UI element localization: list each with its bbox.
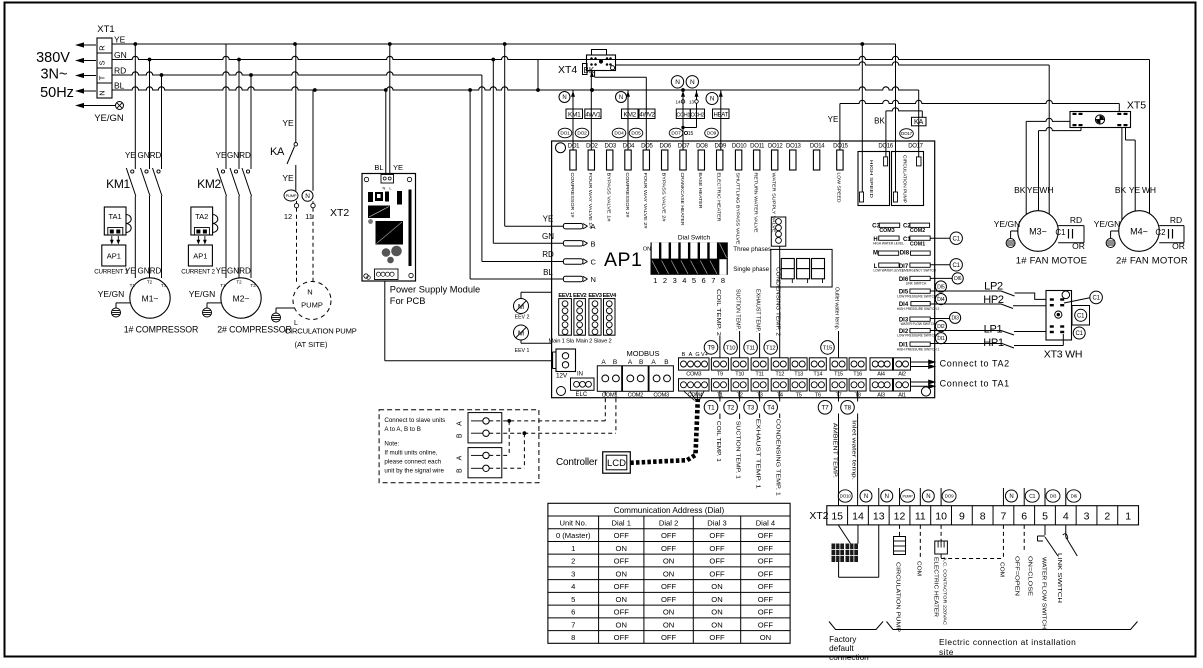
svg-text:N: N: [1009, 494, 1013, 500]
svg-text:B: B: [591, 239, 596, 248]
svg-text:N: N: [562, 95, 566, 101]
svg-text:AI4: AI4: [877, 372, 885, 378]
svg-text:2# FAN MOTOR: 2# FAN MOTOR: [1116, 256, 1188, 267]
svg-text:DO10: DO10: [840, 494, 852, 499]
expansion valve motor EEV2: [514, 299, 529, 314]
svg-text:COM3: COM3: [879, 228, 894, 234]
fan motor M4: [1119, 211, 1160, 252]
svg-text:please connect each: please connect each: [384, 459, 441, 466]
svg-text:YE: YE: [828, 115, 839, 124]
svg-text:Connect to TA1: Connect to TA1: [940, 379, 1010, 389]
svg-text:N: N: [926, 494, 930, 500]
svg-text:YE/GN: YE/GN: [189, 289, 215, 299]
svg-text:Single phase: Single phase: [733, 266, 769, 273]
svg-text:T2: T2: [236, 280, 242, 285]
svg-text:RD: RD: [114, 66, 126, 76]
wire YE bus to DO16: [861, 44, 863, 192]
terminal box T6: [809, 379, 826, 391]
svg-text:4: 4: [571, 582, 575, 591]
svg-text:2: 2: [1104, 511, 1110, 523]
svg-text:ON: ON: [711, 582, 722, 591]
svg-text:LOW PRESSURE SWITCH 2: LOW PRESSURE SWITCH 2: [897, 294, 939, 298]
svg-text:EEV2: EEV2: [573, 293, 586, 299]
svg-text:OFF: OFF: [709, 569, 725, 578]
svg-text:YE: YE: [282, 118, 294, 128]
dashed signal wires A to A B to B: [489, 420, 605, 422]
svg-text:ON: ON: [663, 569, 674, 578]
svg-text:OFF: OFF: [758, 608, 774, 617]
svg-text:GN: GN: [542, 232, 554, 241]
wire M3 BK to XT5: [1026, 118, 1070, 121]
svg-text:DO11: DO11: [750, 144, 765, 150]
svg-text:T11: T11: [755, 372, 764, 378]
svg-text:12: 12: [284, 212, 292, 221]
terminal box AI4: [870, 358, 893, 370]
terminal box T11: [751, 358, 768, 370]
svg-text:DI6: DI6: [1071, 494, 1078, 499]
svg-text:11: 11: [915, 511, 926, 523]
svg-text:ON: ON: [616, 620, 627, 629]
svg-text:OFF: OFF: [614, 531, 630, 540]
svg-text:BK: BK: [1014, 185, 1026, 195]
bus wire BL neutral: [112, 87, 919, 90]
svg-text:BK: BK: [874, 117, 885, 126]
svg-text:OFF: OFF: [758, 557, 774, 566]
svg-text:OFF: OFF: [661, 582, 677, 591]
svg-text:HIGH WATER LEVEL: HIGH WATER LEVEL: [873, 242, 904, 246]
power supply module PCB: [362, 174, 416, 282]
svg-text:OFF: OFF: [758, 531, 774, 540]
svg-text:T7: T7: [821, 405, 829, 412]
svg-text:COM3: COM3: [686, 372, 701, 378]
svg-text:A: A: [628, 359, 633, 366]
XT2 terminal name ovals: [838, 490, 852, 502]
svg-text:site: site: [939, 647, 954, 657]
bus wire GN phase S: [112, 56, 1150, 59]
svg-text:YE: YE: [216, 151, 227, 160]
svg-text:N: N: [305, 193, 310, 200]
terminal box T16: [849, 358, 866, 370]
svg-text:B: B: [457, 433, 464, 438]
svg-text:M2~: M2~: [233, 294, 250, 304]
coil box 4WV1 above DO2: [590, 71, 592, 151]
svg-text:AP1: AP1: [107, 252, 121, 261]
svg-text:N: N: [885, 494, 889, 500]
dashed wires to circulation pump: [296, 208, 298, 284]
svg-text:Electric connection at install: Electric connection at installation: [939, 637, 1076, 647]
wire drops for KM1: [134, 44, 136, 169]
svg-text:1: 1: [571, 544, 575, 553]
svg-text:ELECTRIC HEATER: ELECTRIC HEATER: [717, 173, 722, 222]
svg-text:ON=CLOSE: ON=CLOSE: [1026, 556, 1032, 597]
svg-text:15: 15: [688, 131, 694, 137]
svg-text:XT3 WH: XT3 WH: [1044, 349, 1082, 361]
svg-text:DO17: DO17: [901, 131, 913, 136]
svg-text:Dial 2: Dial 2: [659, 519, 678, 528]
wire M4 WH to GN bus: [1149, 60, 1151, 214]
svg-text:RETURN WATER VALVE: RETURN WATER VALVE: [754, 173, 759, 233]
svg-text:N: N: [619, 95, 623, 101]
svg-text:RD: RD: [542, 250, 554, 259]
svg-text:DO14: DO14: [810, 144, 825, 150]
svg-text:HIGH PRESSURE SWITCH 2: HIGH PRESSURE SWITCH 2: [897, 307, 940, 311]
sensor wire T11 exhaust temp: [759, 333, 761, 358]
capacitor wire to C1: [1064, 298, 1090, 303]
7-segment display: [771, 249, 832, 287]
svg-text:EMERGENCY SWITCH: EMERGENCY SWITCH: [902, 268, 937, 272]
heater box HEAT above DO9: [720, 90, 722, 150]
svg-text:C1: C1: [953, 236, 961, 242]
dashed signal wires from COM1: [604, 391, 606, 421]
svg-text:ON: ON: [663, 620, 674, 629]
svg-text:ON: ON: [663, 608, 674, 617]
svg-text:B: B: [457, 468, 464, 473]
svg-text:TA2: TA2: [195, 212, 208, 221]
svg-text:S: S: [98, 60, 107, 65]
circulation pump circle: [293, 282, 331, 320]
svg-text:LCD: LCD: [607, 458, 626, 469]
svg-text:XT2: XT2: [330, 207, 349, 219]
wire M3 YE to XT5: [1080, 128, 1082, 131]
svg-text:A: A: [601, 359, 606, 366]
svg-text:ON: ON: [711, 595, 722, 604]
svg-text:KM1: KM1: [106, 177, 130, 191]
svg-text:AI3: AI3: [877, 393, 885, 399]
svg-text:EEV4: EEV4: [603, 293, 617, 299]
svg-text:ON: ON: [760, 633, 771, 642]
svg-text:DO5: DO5: [631, 131, 641, 137]
svg-text:YE: YE: [216, 267, 227, 276]
svg-text:BASE HEATER: BASE HEATER: [698, 173, 703, 209]
motor M2: [221, 278, 261, 318]
svg-text:YE: YE: [1129, 185, 1141, 195]
svg-text:DO4: DO4: [614, 131, 624, 137]
wire YE to terminal A: [504, 44, 506, 226]
ground of circulation pump: [272, 313, 281, 322]
svg-text:DO13: DO13: [786, 144, 801, 150]
svg-text:WATER FLOW SWITCH: WATER FLOW SWITCH: [1040, 557, 1046, 629]
svg-text:CIRCULATION PUMP: CIRCULATION PUMP: [285, 326, 357, 335]
svg-text:PUMP: PUMP: [301, 301, 323, 310]
svg-text:COM: COM: [915, 561, 921, 576]
svg-text:CONDENSING TEMP. 2: CONDENSING TEMP. 2: [774, 267, 780, 336]
svg-text:DO7: DO7: [678, 144, 690, 150]
svg-text:Controller: Controller: [556, 457, 598, 468]
svg-text:DO8: DO8: [696, 144, 708, 150]
svg-text:M: M: [873, 251, 878, 257]
svg-text:XT5: XT5: [1127, 100, 1146, 112]
sensor wire T2 suction temp 1: [739, 391, 741, 402]
svg-text:9: 9: [959, 511, 965, 523]
svg-text:Inlet water temp.: Inlet water temp.: [851, 420, 857, 480]
svg-text:AP1: AP1: [604, 249, 642, 271]
svg-text:BYPASS VALVE 2#: BYPASS VALVE 2#: [662, 173, 667, 223]
svg-text:4WV2: 4WV2: [639, 112, 655, 118]
svg-text:15: 15: [831, 511, 843, 523]
svg-text:B: B: [639, 359, 643, 366]
svg-text:2: 2: [571, 557, 575, 566]
svg-text:T15: T15: [834, 372, 843, 378]
fan motor M3: [1018, 211, 1059, 252]
terminal box AI3: [870, 379, 893, 391]
sensor wire T1 coil temp 1: [719, 391, 721, 402]
svg-text:8: 8: [721, 276, 725, 285]
svg-text:T12: T12: [766, 345, 775, 351]
relay box DO16 high speed: [858, 152, 890, 206]
svg-text:AP1: AP1: [193, 252, 207, 261]
connector outlet water temp sensor: [771, 217, 786, 246]
terminal block XT3: [1046, 291, 1072, 341]
svg-text:T13: T13: [794, 372, 803, 378]
electric heater contactor under XT2-10: [940, 525, 942, 541]
svg-text:DI3: DI3: [1050, 494, 1057, 499]
svg-text:FOUR WAY VALVE 1#: FOUR WAY VALVE 1#: [588, 173, 593, 230]
PCB components: [368, 192, 373, 202]
svg-text:4: 4: [682, 276, 686, 285]
svg-text:T2: T2: [147, 280, 153, 285]
svg-text:COM3: COM3: [653, 392, 669, 398]
svg-text:Three phases: Three phases: [733, 246, 771, 253]
svg-text:CIRCULATION PUMP: CIRCULATION PUMP: [895, 562, 901, 633]
svg-text:T1: T1: [130, 283, 136, 288]
svg-text:N: N: [383, 186, 386, 191]
12V power input connector: [556, 349, 576, 372]
svg-text:If multi units online,: If multi units online,: [384, 450, 437, 457]
svg-text:default: default: [829, 644, 854, 653]
terminal box T8: [849, 379, 866, 391]
svg-text:T8: T8: [844, 405, 852, 412]
svg-text:DO2: DO2: [586, 144, 598, 150]
svg-text:COM2: COM2: [910, 228, 925, 234]
capacitor label C1 lower: [1073, 327, 1085, 339]
svg-text:HIGH SPEED: HIGH SPEED: [869, 160, 874, 198]
svg-text:ELC: ELC: [576, 392, 588, 398]
svg-text:IN: IN: [577, 372, 583, 378]
svg-text:MODBUS: MODBUS: [627, 349, 660, 358]
svg-text:KM2: KM2: [623, 111, 636, 118]
slave connector 2: [468, 448, 502, 478]
svg-text:GN: GN: [114, 50, 127, 60]
svg-text:GN: GN: [227, 267, 239, 276]
svg-text:EEV1: EEV1: [558, 293, 572, 299]
svg-text:OFF: OFF: [758, 544, 774, 553]
svg-text:DO4: DO4: [623, 144, 635, 150]
svg-text:5: 5: [1042, 511, 1048, 523]
svg-text:N: N: [690, 79, 695, 86]
svg-text:ON: ON: [616, 595, 627, 604]
svg-text:YE/GN: YE/GN: [1094, 219, 1120, 229]
svg-text:T10: T10: [735, 372, 744, 378]
bus wire YE phase R: [112, 43, 896, 45]
svg-text:XT1: XT1: [97, 24, 114, 35]
board terminals A B C N: [563, 224, 583, 229]
svg-text:OFF: OFF: [661, 531, 677, 540]
svg-text:COM: COM: [998, 562, 1004, 577]
svg-text:YE/GN: YE/GN: [94, 113, 124, 124]
svg-text:YE: YE: [1027, 185, 1039, 195]
svg-text:OFF: OFF: [661, 595, 677, 604]
svg-text:M4~: M4~: [1130, 227, 1148, 237]
svg-text:7: 7: [571, 620, 575, 629]
svg-text:connection: connection: [829, 653, 869, 662]
terminal box T14: [809, 358, 826, 370]
svg-text:OFF: OFF: [661, 633, 677, 642]
wire M4 YE to XT5: [1125, 128, 1127, 141]
svg-text:DO7: DO7: [671, 131, 681, 137]
svg-text:DO9: DO9: [945, 494, 954, 499]
svg-text:RD: RD: [239, 267, 251, 276]
terminal box T4: [771, 379, 788, 391]
svg-text:OFF: OFF: [758, 595, 774, 604]
svg-text:T12: T12: [775, 372, 784, 378]
svg-text:ON: ON: [643, 247, 651, 253]
svg-text:WATER FLOW SWITCH: WATER FLOW SWITCH: [901, 322, 936, 326]
svg-text:DO5: DO5: [641, 144, 653, 150]
heater boxes CCH1 CCH2 above DO7: [682, 90, 684, 150]
svg-text:8: 8: [571, 633, 575, 642]
svg-text:Unit No.: Unit No.: [560, 519, 587, 528]
svg-text:6: 6: [571, 608, 575, 617]
controller board AP1 outline: [552, 141, 935, 398]
svg-text:GN: GN: [227, 151, 239, 160]
communication address table: [548, 503, 790, 643]
terminal box T1: [711, 379, 728, 391]
svg-text:3: 3: [1084, 511, 1090, 523]
wire XT4 branch to N bus: [537, 60, 539, 91]
svg-text:RD: RD: [150, 151, 162, 160]
terminal box T15: [830, 358, 847, 370]
terminal box T12: [771, 358, 788, 370]
expansion valve motor EEV1: [514, 325, 529, 340]
svg-text:4WV1: 4WV1: [585, 112, 601, 118]
coil box KM2 above DO4: [627, 90, 629, 150]
svg-text:T5: T5: [796, 393, 802, 399]
svg-text:OFF: OFF: [758, 582, 774, 591]
svg-text:DO1: DO1: [560, 131, 570, 137]
svg-text:COIL TEMP. 2: COIL TEMP. 2: [715, 289, 721, 336]
svg-text:AI1: AI1: [898, 393, 906, 399]
sensor wire T9 coil temp 2: [719, 336, 721, 358]
svg-text:8: 8: [980, 511, 986, 523]
svg-text:Connect to slave units: Connect to slave units: [384, 417, 445, 424]
terminal labels PUMP and N at XT2: [284, 190, 298, 201]
svg-text:OFF: OFF: [709, 633, 725, 642]
junction dots on buses: [133, 42, 137, 46]
svg-text:EXHAUST TEMP.: EXHAUST TEMP.: [755, 289, 761, 332]
svg-text:PUMP: PUMP: [286, 193, 297, 198]
terminal box T13: [790, 358, 807, 370]
svg-text:BK: BK: [1115, 185, 1127, 195]
svg-text:XT2: XT2: [809, 510, 828, 522]
svg-text:DO6: DO6: [659, 144, 671, 150]
svg-text:T: T: [98, 75, 107, 80]
svg-text:B: B: [613, 359, 617, 366]
contactor KM2: [221, 170, 224, 173]
svg-text:C1: C1: [1029, 494, 1035, 500]
terminal box T3: [751, 379, 768, 391]
brace factory default connection: [829, 622, 883, 630]
svg-text:WATER SUPPLY VALVE: WATER SUPPLY VALVE: [772, 173, 777, 233]
svg-text:T16: T16: [853, 372, 862, 378]
svg-text:N: N: [675, 79, 680, 86]
svg-text:6: 6: [1021, 511, 1027, 523]
svg-text:0 (Master): 0 (Master): [556, 531, 591, 540]
controller cable to COM4: [630, 399, 698, 463]
svg-text:YE: YE: [114, 35, 126, 45]
svg-text:KA: KA: [914, 119, 924, 126]
svg-text:4: 4: [1063, 511, 1069, 523]
svg-text:LP1: LP1: [984, 324, 1003, 336]
sensor wire T8 inlet water temp to XT2-14: [857, 391, 859, 402]
svg-text:LINK SWITCH: LINK SWITCH: [906, 281, 927, 285]
wire N for pump: [312, 90, 314, 191]
svg-text:YE/GN: YE/GN: [994, 219, 1020, 229]
svg-text:T3: T3: [161, 283, 167, 288]
svg-text:12: 12: [894, 511, 906, 523]
terminal block COM4: [679, 379, 710, 391]
svg-text:3: 3: [571, 569, 575, 578]
svg-text:A: A: [457, 455, 464, 460]
current board AP1 of KM2: [188, 245, 212, 266]
svg-text:2# COMPRESSOR: 2# COMPRESSOR: [217, 324, 291, 334]
svg-text:EEV 2: EEV 2: [515, 314, 530, 320]
svg-text:CCH2: CCH2: [691, 112, 705, 118]
svg-text:DI2: DI2: [937, 324, 945, 330]
svg-text:ON: ON: [711, 608, 722, 617]
terminal box T10: [731, 358, 748, 370]
sensor wire T15 outlet water temp: [838, 331, 840, 358]
svg-text:T3: T3: [747, 405, 755, 412]
svg-text:DO3: DO3: [604, 144, 616, 150]
svg-text:Outlet water temp.: Outlet water temp.: [833, 287, 839, 330]
svg-text:DO2: DO2: [577, 131, 587, 137]
svg-text:N: N: [864, 494, 868, 500]
wire GN to terminal B: [492, 60, 494, 244]
svg-text:Note:: Note:: [384, 441, 399, 448]
svg-text:OFF: OFF: [709, 544, 725, 553]
wire DO15 to XT5: [840, 100, 1119, 103]
svg-text:COMPRESSOR 1#: COMPRESSOR 1#: [570, 173, 575, 219]
svg-text:HEAT: HEAT: [714, 112, 729, 118]
svg-text:ELECTRIC HEATER: ELECTRIC HEATER: [933, 557, 939, 617]
sensor wire T12 condensing temp 2: [779, 246, 781, 358]
svg-text:TA1: TA1: [108, 212, 121, 221]
svg-text:KA: KA: [270, 146, 285, 158]
svg-text:EEV 1: EEV 1: [515, 348, 530, 354]
svg-text:M1~: M1~: [142, 294, 159, 304]
svg-text:11: 11: [305, 212, 313, 221]
svg-text:3N~: 3N~: [40, 67, 67, 83]
svg-text:GN: GN: [138, 267, 150, 276]
svg-text:EXHAUST TEMP. 1: EXHAUST TEMP. 1: [755, 419, 761, 489]
svg-text:3: 3: [673, 276, 677, 285]
svg-text:COMPRESSOR 2#: COMPRESSOR 2#: [625, 173, 630, 219]
svg-text:N: N: [591, 275, 596, 284]
svg-text:COM1: COM1: [602, 392, 618, 398]
svg-text:ON: ON: [663, 557, 674, 566]
svg-text:DI1: DI1: [937, 336, 945, 342]
wire PSM to 12V input: [384, 281, 386, 361]
svg-text:DO12: DO12: [768, 144, 783, 150]
svg-text:12V: 12V: [556, 372, 568, 379]
svg-text:OR: OR: [1172, 241, 1185, 251]
svg-text:COIL TEMP. 1: COIL TEMP. 1: [715, 421, 721, 462]
factory jumper plugs on XT2 15-14-13: [838, 525, 850, 544]
svg-text:14: 14: [852, 511, 864, 523]
terminal box AI1: [894, 379, 911, 391]
svg-text:CURRENT 2: CURRENT 2: [181, 269, 215, 276]
svg-text:T15: T15: [823, 345, 832, 351]
